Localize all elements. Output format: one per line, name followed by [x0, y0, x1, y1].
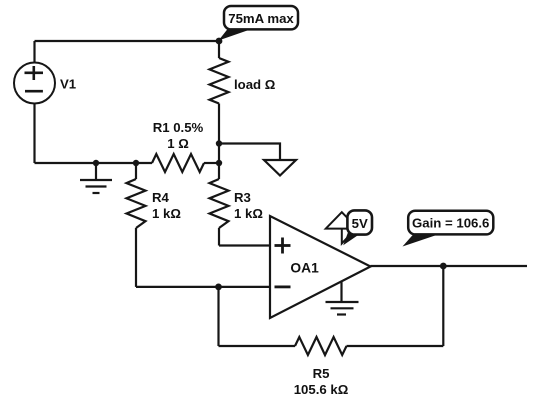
svg-text:1 kΩ: 1 kΩ [234, 206, 263, 221]
svg-text:R4: R4 [152, 190, 170, 205]
svg-text:OA1: OA1 [290, 261, 319, 276]
svg-text:R3: R3 [234, 190, 251, 205]
svg-text:75mA max: 75mA max [228, 11, 294, 26]
svg-text:5V: 5V [352, 216, 368, 231]
svg-text:R5: R5 [313, 366, 330, 381]
svg-text:1 Ω: 1 Ω [167, 136, 189, 151]
svg-text:Gain = 106.6: Gain = 106.6 [412, 216, 489, 231]
svg-text:load Ω: load Ω [234, 77, 276, 92]
svg-text:R1 0.5%: R1 0.5% [153, 120, 204, 135]
svg-text:105.6 kΩ: 105.6 kΩ [294, 382, 349, 397]
svg-text:V1: V1 [60, 77, 76, 92]
svg-text:1 kΩ: 1 kΩ [152, 206, 181, 221]
